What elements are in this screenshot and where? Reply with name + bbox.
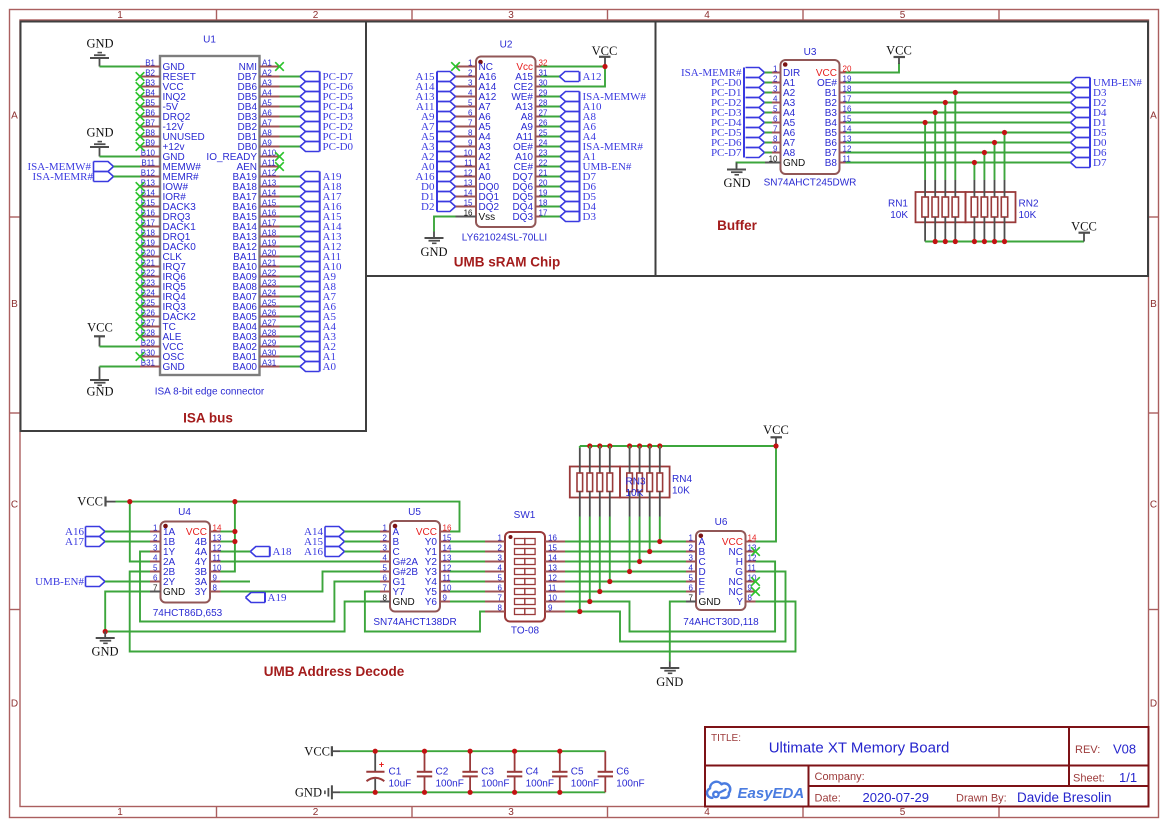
svg-text:6: 6	[773, 114, 778, 123]
svg-text:1: 1	[383, 523, 388, 532]
svg-text:Sheet:: Sheet:	[1073, 773, 1105, 785]
svg-text:A22: A22	[262, 268, 277, 277]
svg-text:100nF: 100nF	[571, 779, 599, 790]
svg-text:7: 7	[498, 593, 503, 602]
svg-text:C4: C4	[526, 767, 539, 778]
svg-text:UMB-EN#: UMB-EN#	[35, 576, 84, 588]
svg-text:7: 7	[383, 583, 388, 592]
labels RN3 RN4	[626, 474, 693, 499]
svg-text:A1: A1	[262, 58, 272, 67]
wire GND to B1	[100, 66, 141, 68]
svg-text:GND: GND	[723, 176, 750, 190]
svg-text:A13: A13	[262, 178, 277, 187]
svg-text:A9: A9	[262, 138, 272, 147]
net flag A19	[246, 592, 287, 604]
wire SW1 pin10 to U6 H	[565, 562, 775, 632]
svg-text:A15: A15	[262, 198, 277, 207]
svg-text:B1: B1	[145, 58, 155, 67]
svg-text:5: 5	[689, 573, 694, 582]
power VCC at U1 pin B29	[87, 321, 113, 347]
svg-text:100nF: 100nF	[481, 779, 509, 790]
svg-text:D2: D2	[421, 201, 434, 213]
svg-text:5: 5	[498, 573, 503, 582]
svg-text:GND: GND	[86, 126, 113, 140]
svg-text:A0: A0	[323, 361, 337, 373]
svg-text:Y: Y	[736, 597, 743, 608]
svg-text:8: 8	[213, 583, 218, 592]
EasyEDA logo	[707, 782, 804, 802]
svg-text:RN3: RN3	[626, 477, 646, 488]
junction GND mid	[103, 629, 108, 634]
wire VCC drop to U4 pin4	[130, 502, 150, 562]
wire RN3 leads down to rows	[580, 446, 610, 612]
wire U4 4Y to U5 G#2A	[221, 561, 381, 563]
wire U4 3A stub	[221, 581, 251, 583]
svg-text:A24: A24	[262, 288, 277, 297]
svg-text:7: 7	[773, 124, 778, 133]
svg-text:11: 11	[748, 563, 757, 572]
svg-text:16: 16	[464, 208, 473, 217]
capacitor C5 100nF	[552, 751, 599, 792]
ground GND at U1 pin B31	[86, 367, 113, 399]
svg-text:A30: A30	[262, 348, 277, 357]
svg-text:U1: U1	[203, 35, 216, 46]
svg-text:GND: GND	[163, 587, 185, 598]
power VCC at RN bus	[1071, 220, 1097, 242]
net flag A12	[560, 71, 602, 83]
net flag ISA-MEMW#	[27, 161, 113, 173]
wire SW1 pin9 to U6 G	[565, 572, 786, 642]
wire U3 left flags to pins	[765, 73, 773, 153]
svg-text:GND: GND	[86, 385, 113, 399]
junction VCC rail B	[232, 499, 237, 504]
wire SW1 to U6 inputs	[565, 542, 686, 592]
svg-text:A31: A31	[262, 358, 277, 367]
wire U6 GND pin7	[670, 602, 686, 662]
svg-text:B: B	[1150, 299, 1157, 310]
svg-text:Date:: Date:	[815, 793, 841, 805]
ground GND mid-left	[91, 632, 118, 659]
wire GND to B31	[100, 366, 141, 368]
svg-text:B9: B9	[145, 138, 155, 147]
wire U1 address pins to A flags	[280, 177, 301, 367]
wire U3 outputs to flags	[846, 83, 1071, 163]
svg-text:GND: GND	[86, 37, 113, 51]
power VCC at U2	[592, 44, 618, 67]
svg-text:GND: GND	[91, 645, 118, 659]
svg-text:REV:: REV:	[1075, 744, 1100, 756]
svg-text:A19: A19	[268, 592, 287, 604]
svg-text:5: 5	[383, 563, 388, 572]
svg-text:ISA bus: ISA bus	[183, 411, 233, 426]
svg-text:C: C	[11, 500, 18, 511]
svg-text:1: 1	[153, 523, 158, 532]
net flags PC-D7..PC-D0	[300, 71, 354, 153]
IC U6 74AHCT30D,118	[683, 517, 759, 628]
power VCC at RN3 RN4 rail	[763, 423, 789, 446]
section box Buffer	[656, 22, 1149, 277]
svg-text:RN1: RN1	[888, 199, 908, 210]
junction RN bus	[933, 239, 1008, 244]
svg-text:GND: GND	[783, 158, 805, 169]
svg-text:A: A	[11, 111, 18, 122]
svg-text:A7: A7	[262, 118, 272, 127]
wire RN4 leads down to rows	[630, 446, 660, 572]
svg-text:B12: B12	[141, 168, 156, 177]
ground GND at U6	[656, 662, 683, 690]
junction taps on U3 output wires	[923, 90, 1008, 165]
net flag A18	[250, 546, 292, 558]
svg-text:C2: C2	[436, 767, 449, 778]
svg-text:PC-D7: PC-D7	[711, 147, 742, 159]
svg-text:9: 9	[548, 603, 553, 612]
svg-text:A21: A21	[262, 258, 277, 267]
svg-text:RN4: RN4	[672, 474, 692, 485]
svg-text:A18: A18	[273, 546, 292, 558]
net flag ISA-MEMR#	[32, 171, 113, 183]
svg-text:2: 2	[468, 68, 473, 77]
svg-text:3: 3	[508, 807, 514, 818]
ground GND at U1 pin B1	[86, 37, 113, 67]
svg-text:A26: A26	[262, 308, 277, 317]
svg-text:Y6: Y6	[425, 597, 438, 608]
net flags U2 left A15..D2	[416, 71, 456, 213]
power VCC at capacitor rail	[304, 745, 340, 759]
IC U3 SN74AHCT245DWR	[764, 47, 857, 189]
power VCC at U3	[886, 44, 912, 65]
svg-text:10: 10	[464, 148, 473, 157]
svg-text:A16: A16	[262, 208, 277, 217]
svg-text:100nF: 100nF	[616, 779, 644, 790]
svg-text:11: 11	[464, 158, 473, 167]
svg-text:C: C	[1150, 500, 1157, 511]
junction U2 Vcc	[602, 64, 607, 69]
svg-text:U2: U2	[500, 40, 513, 51]
svg-text:ISA-MEMR#: ISA-MEMR#	[32, 171, 93, 183]
wire A16 to U4 pin1	[105, 531, 150, 533]
wire capacitor GND rail	[340, 791, 605, 793]
svg-text:VCC: VCC	[304, 745, 330, 759]
net flag A17	[65, 536, 105, 548]
svg-text:3: 3	[468, 78, 473, 87]
svg-text:15: 15	[464, 198, 473, 207]
net flags A14 A15 A16	[304, 526, 344, 558]
svg-text:A3: A3	[262, 78, 272, 87]
svg-text:C6: C6	[616, 767, 629, 778]
wire VCC drop to U4 pins 14 13 10	[221, 502, 235, 572]
svg-text:GND: GND	[295, 786, 322, 800]
svg-text:1: 1	[498, 533, 503, 542]
svg-text:6: 6	[383, 573, 388, 582]
svg-text:11: 11	[213, 553, 222, 562]
capacitor C6 100nF	[598, 751, 645, 792]
svg-text:A17: A17	[262, 218, 277, 227]
svg-text:B8: B8	[825, 158, 838, 169]
svg-text:3: 3	[508, 10, 514, 21]
svg-text:Ultimate XT Memory Board: Ultimate XT Memory Board	[769, 740, 950, 757]
svg-text:VCC: VCC	[886, 44, 912, 58]
wire ISA-MEMR# to B12	[114, 176, 141, 178]
svg-text:V08: V08	[1113, 742, 1136, 757]
svg-text:VCC: VCC	[763, 423, 789, 437]
svg-text:A10: A10	[262, 148, 277, 157]
svg-text:7: 7	[468, 118, 473, 127]
junction capacitor rails	[373, 749, 563, 795]
svg-text:6: 6	[498, 583, 503, 592]
svg-text:12: 12	[548, 573, 557, 582]
capacitor C2 100nF	[417, 751, 464, 792]
svg-text:GND: GND	[163, 362, 185, 373]
svg-text:1: 1	[117, 10, 123, 21]
svg-text:4: 4	[773, 94, 778, 103]
svg-text:3: 3	[773, 84, 778, 93]
section box ISA bus	[21, 22, 367, 432]
svg-text:Davide Bresolin: Davide Bresolin	[1017, 790, 1112, 805]
svg-text:5: 5	[773, 104, 778, 113]
svg-text:13: 13	[548, 563, 557, 572]
wire GND to B10	[100, 156, 141, 158]
resistor network RN4 10K	[620, 448, 670, 517]
svg-text:1: 1	[689, 533, 694, 542]
svg-text:D: D	[11, 699, 18, 710]
svg-text:2020-07-29: 2020-07-29	[863, 790, 930, 805]
svg-text:C5: C5	[571, 767, 584, 778]
svg-text:9: 9	[443, 593, 448, 602]
svg-text:UMB sRAM Chip: UMB sRAM Chip	[454, 255, 561, 270]
net flags A19..A0	[300, 171, 342, 373]
svg-text:GND: GND	[656, 675, 683, 689]
svg-text:A8: A8	[262, 128, 272, 137]
svg-text:GND: GND	[420, 245, 447, 259]
wire U3 GND pin10	[737, 163, 766, 168]
wire A17 to U4 pin2	[105, 541, 150, 543]
svg-text:+: +	[379, 759, 384, 769]
svg-text:D7: D7	[1093, 157, 1107, 169]
wire A14 A15 A16 to U5	[345, 532, 381, 552]
capacitor C4 100nF	[507, 751, 554, 792]
svg-text:A: A	[1150, 111, 1157, 122]
no-connect marks U1 right	[275, 62, 284, 171]
wire U2 Vss to GND	[434, 217, 456, 232]
svg-text:6: 6	[468, 108, 473, 117]
svg-text:1: 1	[117, 807, 123, 818]
svg-text:10K: 10K	[890, 210, 908, 221]
svg-text:2: 2	[773, 74, 778, 83]
svg-text:3: 3	[689, 553, 694, 562]
svg-text:9: 9	[213, 573, 218, 582]
svg-text:DQ3: DQ3	[512, 212, 533, 223]
svg-text:6: 6	[153, 573, 158, 582]
svg-text:A5: A5	[262, 98, 272, 107]
svg-text:4: 4	[383, 553, 388, 562]
svg-text:GND: GND	[699, 597, 721, 608]
wire capacitor VCC rail	[340, 750, 605, 752]
svg-text:B2: B2	[145, 68, 155, 77]
svg-text:12: 12	[464, 168, 473, 177]
wire VCC rail to U5 pin16	[116, 502, 460, 532]
frame column ticks	[217, 10, 1000, 818]
junction VCC rail RN taps	[587, 443, 778, 448]
svg-text:C1: C1	[389, 767, 402, 778]
svg-text:2: 2	[313, 807, 319, 818]
wire U5 Y0-Y6 to SW1	[450, 542, 485, 602]
wire U2 right pins to flags	[541, 97, 561, 217]
wire U4 pin12 to A18	[221, 551, 251, 553]
ground GND at capacitor rail	[295, 785, 340, 799]
svg-text:VCC: VCC	[77, 495, 103, 509]
svg-text:4: 4	[498, 563, 503, 572]
net flags U3 right UMB-EN#..D7	[1071, 77, 1143, 169]
svg-text:7: 7	[689, 593, 694, 602]
svg-text:B4: B4	[145, 88, 155, 97]
junction VCC rail A	[127, 499, 132, 504]
svg-text:A6: A6	[262, 108, 272, 117]
switch SW1 TO-08	[485, 510, 565, 637]
svg-text:14: 14	[548, 553, 557, 562]
capacitor C1 10uF	[366, 751, 411, 792]
wire UMB-EN# to U4 pin6	[105, 581, 150, 583]
svg-text:A19: A19	[262, 238, 277, 247]
svg-text:5: 5	[468, 98, 473, 107]
net flag A16	[65, 526, 105, 538]
svg-text:SW1: SW1	[514, 510, 536, 521]
wire U1 data pins to PC-D flags	[280, 77, 301, 147]
svg-text:A25: A25	[262, 298, 277, 307]
svg-text:2: 2	[153, 533, 158, 542]
svg-text:U6: U6	[715, 517, 728, 528]
svg-text:8: 8	[773, 134, 778, 143]
svg-text:VCC: VCC	[1071, 220, 1097, 234]
svg-text:A27: A27	[262, 318, 277, 327]
svg-text:A28: A28	[262, 328, 277, 337]
ground GND at U2 Vss	[420, 232, 447, 260]
svg-text:EasyEDA: EasyEDA	[738, 785, 805, 802]
resistor network RN1 10K	[888, 180, 966, 242]
svg-text:8: 8	[498, 603, 503, 612]
svg-text:Buffer: Buffer	[717, 218, 757, 233]
svg-text:ISA 8-bit edge connector: ISA 8-bit edge connector	[155, 387, 265, 398]
svg-text:B11: B11	[141, 158, 155, 167]
svg-text:74HCT86D,653: 74HCT86D,653	[153, 608, 223, 619]
svg-text:SN74AHCT245DWR: SN74AHCT245DWR	[764, 178, 857, 189]
IC U4 74HCT86D,653	[150, 507, 223, 619]
svg-text:1/1: 1/1	[1119, 770, 1137, 785]
ground GND at U1 pin B10	[86, 126, 113, 157]
svg-text:B5: B5	[145, 98, 155, 107]
svg-text:A2: A2	[262, 68, 272, 77]
svg-text:TITLE:: TITLE:	[711, 733, 741, 744]
svg-text:UMB Address Decode: UMB Address Decode	[264, 664, 405, 679]
svg-text:14: 14	[464, 188, 473, 197]
frame column labels	[117, 10, 906, 818]
svg-text:LY621024SL-70LLI: LY621024SL-70LLI	[462, 233, 547, 244]
wire U2 Vcc pin32 pin30	[541, 66, 606, 68]
IC U2 LY621024SL-70LLI	[456, 40, 548, 244]
svg-text:B6: B6	[145, 108, 155, 117]
IC U5 SN74AHCT138DR	[373, 507, 456, 628]
svg-text:6: 6	[689, 583, 694, 592]
frame row ticks	[10, 217, 1159, 610]
svg-text:3Y: 3Y	[195, 587, 208, 598]
svg-text:10uF: 10uF	[389, 779, 412, 790]
svg-text:10K: 10K	[1019, 210, 1037, 221]
section box UMB sRAM Chip	[366, 22, 656, 277]
wire U2 pin31 to A12 flag	[541, 76, 560, 78]
svg-text:A14: A14	[262, 188, 277, 197]
svg-text:A4: A4	[262, 88, 272, 97]
svg-text:B3: B3	[145, 78, 155, 87]
svg-text:5: 5	[900, 807, 906, 818]
svg-text:C3: C3	[481, 767, 494, 778]
svg-text:TO-08: TO-08	[511, 626, 540, 637]
svg-text:9: 9	[468, 138, 473, 147]
svg-text:B: B	[11, 299, 18, 310]
svg-text:15: 15	[548, 543, 557, 552]
svg-text:100nF: 100nF	[436, 779, 464, 790]
svg-text:A29: A29	[262, 338, 277, 347]
svg-text:8: 8	[383, 593, 388, 602]
svg-text:BA00: BA00	[233, 362, 258, 373]
svg-text:Company:: Company:	[815, 771, 865, 783]
resistor network RN2 10K	[966, 180, 1039, 242]
svg-text:U4: U4	[178, 507, 191, 518]
capacitor C3 100nF	[462, 751, 509, 792]
resistor network RN3 10K	[570, 448, 620, 517]
power VCC rail left	[77, 495, 115, 509]
svg-text:4: 4	[704, 807, 710, 818]
svg-text:U5: U5	[408, 507, 421, 518]
no-connect mark U2 pin1	[451, 62, 460, 71]
junction RN3 RN4 taps on switch rows	[577, 539, 662, 614]
svg-text:A18: A18	[262, 228, 277, 237]
svg-text:B8: B8	[145, 128, 155, 137]
svg-text:3: 3	[153, 543, 158, 552]
svg-text:D3: D3	[583, 211, 597, 223]
svg-text:A11: A11	[262, 158, 276, 167]
svg-text:U3: U3	[804, 47, 817, 58]
svg-text:PC-D0: PC-D0	[323, 141, 354, 153]
title block	[705, 727, 1149, 807]
ground GND at U3	[723, 163, 750, 191]
wire U4 2B to U6 Y	[130, 572, 796, 652]
svg-text:2: 2	[383, 533, 388, 542]
wire VCC rail RN3 RN4 to U6 pin14	[580, 446, 776, 542]
svg-text:11: 11	[548, 583, 557, 592]
wire U4 1Y to U5 G1	[140, 552, 380, 622]
svg-text:3: 3	[383, 543, 388, 552]
svg-text:4: 4	[153, 553, 158, 562]
svg-text:9: 9	[773, 144, 778, 153]
svg-text:3: 3	[498, 553, 503, 562]
wire U5 Y7 to SW1 pin8	[365, 592, 485, 632]
svg-text:4: 4	[704, 10, 710, 21]
svg-text:10: 10	[548, 593, 557, 602]
net flags U3 left ISA-MEMR#..PC-D7	[681, 67, 765, 159]
wire VCC to B29	[100, 346, 141, 348]
svg-text:100nF: 100nF	[526, 779, 554, 790]
svg-text:1: 1	[468, 58, 473, 67]
svg-text:2: 2	[689, 543, 694, 552]
svg-text:8: 8	[468, 128, 473, 137]
svg-text:4: 4	[468, 88, 473, 97]
wire RN1 RN2 taps to data wires	[925, 93, 1004, 181]
svg-text:Vss: Vss	[479, 212, 496, 223]
svg-text:74AHCT30D,118: 74AHCT30D,118	[683, 617, 759, 628]
wire U4 3Y to U5 G#2B	[221, 572, 381, 592]
wire ISA-MEMW# to B11	[114, 166, 141, 168]
svg-text:13: 13	[464, 178, 473, 187]
svg-text:16: 16	[548, 533, 557, 542]
